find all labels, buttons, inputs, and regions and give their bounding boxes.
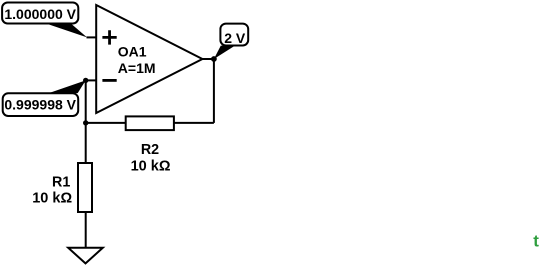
resistor R1 bbox=[78, 163, 92, 212]
node: inverting input junction bbox=[83, 78, 88, 83]
svg-text:10 kΩ: 10 kΩ bbox=[131, 159, 171, 175]
wire: op-amp output stub bbox=[202, 58, 214, 60]
node: output junction bbox=[211, 56, 217, 62]
probe label 1.000000 V (callout) bbox=[2, 3, 87, 38]
wire: R1 bottom to ground bbox=[85, 212, 87, 248]
svg-text:1.000000 V: 1.000000 V bbox=[4, 6, 76, 22]
svg-text:R1: R1 bbox=[52, 175, 70, 191]
svg-text:OA1: OA1 bbox=[118, 44, 147, 60]
wire: left vertical (inverting node down to R1) bbox=[85, 80, 87, 163]
label R1 value bbox=[32, 175, 72, 207]
wire: output vertical bbox=[213, 59, 215, 123]
probe label 2 V (callout) bbox=[214, 24, 248, 59]
svg-text:R2: R2 bbox=[141, 142, 159, 158]
pin + (non-inverting input) bbox=[102, 30, 116, 44]
ground bbox=[68, 248, 103, 264]
svg-text:A=1M: A=1M bbox=[118, 60, 156, 76]
svg-text:t: t bbox=[533, 232, 539, 251]
wire: - input stub bbox=[86, 79, 97, 81]
svg-text:2 V: 2 V bbox=[224, 30, 246, 46]
label R2 value bbox=[131, 142, 171, 174]
op-amp OA1 bbox=[96, 5, 202, 113]
wire: R2 right to output vertical bbox=[174, 122, 214, 124]
resistor R2 bbox=[126, 116, 174, 130]
wire: + input stub bbox=[87, 36, 97, 38]
node: feedback junction bbox=[83, 120, 88, 125]
wire: feedback horizontal to R2 left bbox=[86, 122, 126, 124]
pin - (inverting input) bbox=[102, 79, 116, 82]
svg-text:0.999998 V: 0.999998 V bbox=[4, 96, 76, 112]
svg-text:10 kΩ: 10 kΩ bbox=[32, 191, 72, 207]
probe label 0.999998 V (callout) bbox=[3, 80, 86, 116]
